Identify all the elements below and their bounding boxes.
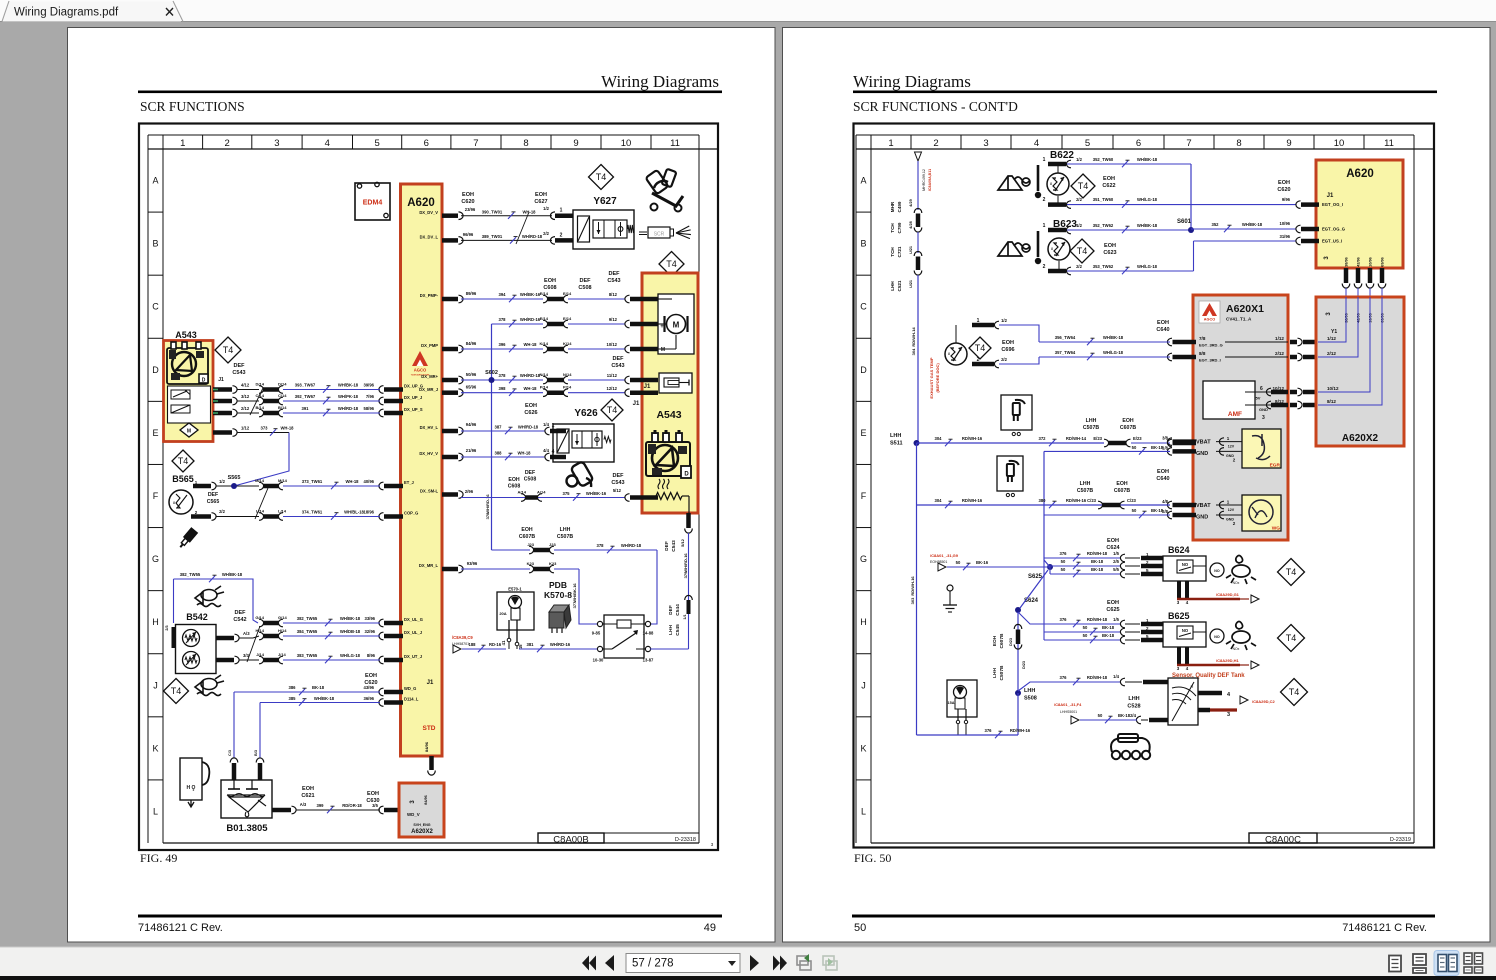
svg-text:G/14: G/14 <box>278 615 287 620</box>
svg-text:33/96: 33/96 <box>365 616 376 621</box>
svg-text:EOH: EOH <box>367 791 379 797</box>
svg-text:9: 9 <box>573 138 578 149</box>
svg-text:1: 1 <box>977 318 980 324</box>
svg-text:C640: C640 <box>1156 327 1169 333</box>
svg-text:2/96: 2/96 <box>465 489 474 494</box>
svg-text:COP_G: COP_G <box>404 511 418 516</box>
svg-text:40/96: 40/96 <box>364 479 375 484</box>
svg-text:EOH: EOH <box>544 278 556 284</box>
svg-text:WH/RD-18: WH/RD-18 <box>522 234 543 239</box>
svg-text:RD/WH-14: RD/WH-14 <box>911 327 916 347</box>
svg-text:7/8: 7/8 <box>1199 336 1206 341</box>
svg-text:WH/LG-18: WH/LG-18 <box>1137 264 1158 269</box>
svg-text:36/96: 36/96 <box>364 696 375 701</box>
svg-text:1/2: 1/2 <box>543 206 549 211</box>
svg-text:C620: C620 <box>364 680 377 686</box>
svg-text:A/3: A/3 <box>300 802 307 807</box>
svg-text:8: 8 <box>523 138 528 149</box>
svg-text:B565: B565 <box>172 474 194 484</box>
svg-text:2: 2 <box>1043 264 1046 270</box>
svg-text:T4: T4 <box>1286 633 1297 643</box>
svg-text:DX_DV_L: DX_DV_L <box>420 235 439 240</box>
svg-text:2: 2 <box>225 138 230 149</box>
svg-text:C544: C544 <box>675 604 681 616</box>
svg-text:50: 50 <box>1061 567 1066 572</box>
svg-text:EOH: EOH <box>365 673 377 679</box>
svg-text:K570-8: K570-8 <box>544 590 572 600</box>
svg-text:WH/RD-16: WH/RD-16 <box>550 642 571 647</box>
svg-text:96/96: 96/96 <box>463 232 474 237</box>
svg-text:383_TW65: 383_TW65 <box>297 653 318 658</box>
svg-text:372: 372 <box>1039 436 1047 441</box>
svg-text:N/14: N/14 <box>540 372 549 377</box>
svg-text:DX_MR+: DX_MR+ <box>421 374 438 379</box>
svg-text:41: 41 <box>501 640 506 646</box>
svg-text:C: C <box>152 302 159 312</box>
svg-text:FIG. 50: FIG. 50 <box>854 851 891 865</box>
svg-text:EOH: EOH <box>525 403 537 409</box>
svg-text:U/21: U/21 <box>909 280 913 288</box>
svg-text:K: K <box>152 743 158 753</box>
svg-text:M: M <box>661 347 665 353</box>
svg-text:DEF: DEF <box>664 541 670 551</box>
svg-text:RD/WH-18: RD/WH-18 <box>1087 675 1108 680</box>
svg-text:D: D <box>152 365 159 375</box>
svg-text:DEF: DEF <box>235 610 247 616</box>
svg-text:13-87: 13-87 <box>643 658 654 663</box>
svg-text:1/2: 1/2 <box>1001 318 1007 323</box>
svg-text:NO: NO <box>1214 635 1220 639</box>
svg-text:F: F <box>861 491 867 501</box>
svg-text:WH/LG-18: WH/LG-18 <box>1103 350 1124 355</box>
svg-text:J1: J1 <box>644 384 651 390</box>
svg-text:BK-18: BK-18 <box>1151 508 1164 513</box>
svg-text:BK-18: BK-18 <box>1091 559 1104 564</box>
svg-text:DEF: DEF <box>613 356 625 362</box>
svg-text:EOH: EOH <box>1157 469 1169 475</box>
svg-text:10/12: 10/12 <box>607 342 618 347</box>
svg-text:15A: 15A <box>948 701 955 705</box>
svg-text:T4: T4 <box>1286 567 1297 577</box>
svg-text:Y1: Y1 <box>1331 329 1337 335</box>
svg-text:J/14: J/14 <box>278 652 287 657</box>
svg-text:352_TW62: 352_TW62 <box>1093 223 1114 228</box>
svg-text:TCH: TCH <box>890 223 895 233</box>
svg-text:T4: T4 <box>666 259 677 269</box>
svg-text:ET_J: ET_J <box>404 480 414 485</box>
svg-text:T4: T4 <box>596 172 607 182</box>
svg-text:T4: T4 <box>1078 181 1089 191</box>
svg-text:LHH: LHH <box>668 625 674 635</box>
svg-text:C721: C721 <box>897 246 902 257</box>
svg-text:T4: T4 <box>607 405 618 415</box>
svg-text:C499: C499 <box>897 201 902 212</box>
svg-text:WH/BK-18: WH/BK-18 <box>1242 222 1263 227</box>
svg-text:DX_PMP-: DX_PMP- <box>420 293 439 298</box>
svg-text:57 / 278: 57 / 278 <box>632 958 674 970</box>
svg-text:BK-18: BK-18 <box>1118 713 1131 718</box>
svg-text:391: 391 <box>302 406 310 411</box>
svg-text:M/14: M/14 <box>255 478 265 483</box>
svg-text:1: 1 <box>888 138 893 149</box>
svg-text:WH-18: WH-18 <box>345 479 359 484</box>
svg-text:376: 376 <box>1060 617 1068 622</box>
svg-text:9-85: 9-85 <box>592 631 601 636</box>
svg-text:7: 7 <box>473 138 478 149</box>
svg-text:DEF: DEF <box>208 492 218 498</box>
svg-text:10: 10 <box>621 138 632 149</box>
svg-text:WH/RD-16: WH/RD-16 <box>520 317 541 322</box>
svg-text:C8A00B: C8A00B <box>553 835 588 846</box>
svg-text:DX_UP_J: DX_UP_J <box>404 395 422 400</box>
svg-text:DX_HV_L: DX_HV_L <box>420 425 439 430</box>
svg-text:G/14: G/14 <box>255 615 264 620</box>
svg-text:11: 11 <box>1384 138 1394 149</box>
svg-text:C/14: C/14 <box>278 393 287 398</box>
svg-text:2/12: 2/12 <box>241 406 250 411</box>
svg-text:50: 50 <box>1132 508 1137 513</box>
svg-text:J1: J1 <box>218 377 224 383</box>
svg-text:EGR: EGR <box>1270 463 1281 469</box>
svg-text:A/14: A/14 <box>518 490 527 495</box>
svg-text:394: 394 <box>499 292 507 297</box>
svg-text:4: 4 <box>325 138 330 149</box>
svg-text:7/96: 7/96 <box>366 394 375 399</box>
svg-text:3: 3 <box>1262 415 1265 421</box>
svg-text:2/2: 2/2 <box>1001 357 1007 362</box>
svg-text:WH/RD-18: WH/RD-18 <box>520 373 541 378</box>
svg-text:LHH: LHH <box>890 433 901 439</box>
svg-text:P/14: P/14 <box>540 385 549 390</box>
svg-text:L: L <box>153 806 158 816</box>
svg-text:352_TW60: 352_TW60 <box>1093 157 1114 162</box>
svg-text:EGT_US_I: EGT_US_I <box>1322 239 1342 244</box>
svg-text:C543: C543 <box>671 540 677 552</box>
svg-text:2/2: 2/2 <box>1076 264 1082 269</box>
svg-text:50: 50 <box>1098 713 1103 718</box>
svg-text:C620: C620 <box>1277 187 1290 193</box>
svg-text:WH/LG-18: WH/LG-18 <box>1137 197 1158 202</box>
svg-text:396: 396 <box>499 342 507 347</box>
svg-text:2/2: 2/2 <box>1076 197 1082 202</box>
svg-text:C623: C623 <box>1103 250 1116 256</box>
svg-text:EXHAUST GAS TEMP: EXHAUST GAS TEMP <box>929 357 934 398</box>
svg-text:WH-18: WH-18 <box>522 210 536 215</box>
svg-text:WH-18: WH-18 <box>517 451 531 456</box>
svg-text:RD/WH-16: RD/WH-16 <box>1066 498 1087 503</box>
svg-text:3/12: 3/12 <box>241 394 250 399</box>
svg-text:J/14: J/14 <box>256 652 265 657</box>
svg-text:Wiring Diagrams: Wiring Diagrams <box>853 72 971 91</box>
svg-text:50: 50 <box>1083 625 1088 630</box>
svg-text:WH/BK-16: WH/BK-16 <box>520 292 541 297</box>
svg-text:1/2: 1/2 <box>219 479 225 484</box>
svg-text:WH/BK-18: WH/BK-18 <box>1137 157 1158 162</box>
svg-text:357_TW64: 357_TW64 <box>1055 350 1076 355</box>
svg-text:10/96: 10/96 <box>1280 221 1291 226</box>
svg-text:EOH: EOH <box>1107 600 1119 606</box>
svg-text:C543: C543 <box>232 370 245 376</box>
svg-text:C543: C543 <box>611 363 624 369</box>
svg-text:J23: J23 <box>527 542 534 547</box>
svg-text:WH/BK-18: WH/BK-18 <box>340 616 361 621</box>
svg-text:LHH: LHH <box>1024 688 1035 694</box>
svg-text:VBAT: VBAT <box>1196 503 1211 509</box>
svg-text:9/12: 9/12 <box>609 317 618 322</box>
svg-text:EGT_OG_G: EGT_OG_G <box>1322 227 1345 232</box>
svg-text:C696: C696 <box>1001 347 1014 353</box>
svg-text:2: 2 <box>1043 197 1046 203</box>
svg-text:EOH: EOH <box>992 635 998 646</box>
svg-text:BK-18: BK-18 <box>312 685 325 690</box>
svg-text:LHH: LHH <box>1080 481 1091 487</box>
svg-text:WH-18: WH-18 <box>523 386 537 391</box>
svg-text:4/28: 4/28 <box>909 221 913 228</box>
svg-text:C624: C624 <box>1106 545 1120 551</box>
svg-text:304: 304 <box>911 348 916 355</box>
svg-text:J: J <box>861 680 866 690</box>
svg-text:P/14: P/14 <box>563 385 572 390</box>
svg-text:380: 380 <box>1039 498 1047 503</box>
svg-text:B/14: B/14 <box>278 405 287 410</box>
svg-text:DX_UT_J: DX_UT_J <box>404 654 422 659</box>
svg-text:378: 378 <box>499 317 507 322</box>
svg-text:EOH: EOH <box>1103 176 1115 182</box>
svg-text:49: 49 <box>704 922 716 934</box>
svg-text:2/3: 2/3 <box>165 625 169 630</box>
svg-text:378: 378 <box>597 543 605 548</box>
svg-text:50: 50 <box>854 922 866 934</box>
svg-text:MHR: MHR <box>890 201 895 212</box>
svg-text:C/23: C/23 <box>1127 498 1137 503</box>
svg-text:1/12: 1/12 <box>241 426 250 431</box>
svg-text:351_TW60: 351_TW60 <box>1093 197 1114 202</box>
svg-text:+: + <box>660 324 664 330</box>
svg-text:STD: STD <box>423 725 436 732</box>
svg-text:H/14: H/14 <box>256 628 265 633</box>
svg-text:RD/WH-14: RD/WH-14 <box>1066 436 1087 441</box>
svg-text:SVH_ENG: SVH_ENG <box>413 823 430 827</box>
svg-text:MHRC499,12: MHRC499,12 <box>922 169 926 191</box>
svg-text:RD-16: RD-16 <box>489 642 502 647</box>
svg-text:376: 376 <box>1060 675 1068 680</box>
svg-text:2/2: 2/2 <box>543 231 549 236</box>
svg-text:10: 10 <box>1334 138 1345 149</box>
svg-text:LHH: LHH <box>890 281 895 291</box>
svg-text:T4: T4 <box>1077 246 1088 256</box>
svg-text:3: 3 <box>274 138 279 149</box>
svg-text:D/23: D/23 <box>1022 661 1026 669</box>
svg-text:3/5: 3/5 <box>372 803 378 808</box>
svg-text:EOH: EOH <box>1002 340 1014 346</box>
svg-text:84/96: 84/96 <box>466 341 477 346</box>
svg-text:10/96: 10/96 <box>1369 257 1373 267</box>
svg-text:2/12: 2/12 <box>1327 351 1336 356</box>
svg-text:S565: S565 <box>228 475 241 481</box>
svg-text:C/23: C/23 <box>1087 498 1097 503</box>
svg-text:D: D <box>202 378 206 384</box>
svg-text:G: G <box>152 554 159 564</box>
svg-text:E: E <box>152 428 158 438</box>
svg-text:K/14: K/14 <box>563 341 572 346</box>
svg-text:E/23: E/23 <box>1093 436 1102 441</box>
svg-text:71486121 C Rev.: 71486121 C Rev. <box>1342 922 1427 934</box>
svg-text:B: B <box>860 239 866 249</box>
svg-text:4: 4 <box>1034 138 1039 149</box>
svg-text:EDM4: EDM4 <box>363 200 383 207</box>
svg-text:E/14: E/14 <box>540 291 549 296</box>
svg-text:LHHS5001: LHHS5001 <box>1060 710 1077 714</box>
svg-text:390_TW01: 390_TW01 <box>482 210 503 215</box>
svg-text:DX_SM-L: DX_SM-L <box>420 489 438 494</box>
svg-text:GND: GND <box>1259 407 1268 412</box>
svg-text:E/14: E/14 <box>540 316 549 321</box>
svg-text:S508: S508 <box>1024 696 1037 702</box>
svg-text:2/5: 2/5 <box>1113 559 1119 564</box>
svg-text:2: 2 <box>933 138 938 149</box>
svg-text:J1: J1 <box>1327 193 1334 199</box>
svg-text:L/14: L/14 <box>278 509 287 514</box>
svg-text:EOH: EOH <box>508 477 519 483</box>
svg-text:376: 376 <box>1060 551 1068 556</box>
svg-text:NOx: NOx <box>1233 647 1240 651</box>
svg-text:21/96: 21/96 <box>466 448 477 453</box>
svg-text:C543: C543 <box>611 480 624 486</box>
svg-text:A/14: A/14 <box>537 490 546 495</box>
svg-text:E/14: E/14 <box>563 291 572 296</box>
svg-text:5/12: 5/12 <box>680 538 685 547</box>
svg-text:M/14: M/14 <box>278 478 288 483</box>
svg-text:S625: S625 <box>1028 574 1043 580</box>
svg-text:WH-18: WH-18 <box>280 426 294 431</box>
svg-text:A620X2: A620X2 <box>411 829 433 835</box>
svg-text:A620X1: A620X1 <box>1226 303 1264 315</box>
svg-text:7: 7 <box>1186 138 1191 149</box>
svg-text:/C8A29D,G1: /C8A29D,G1 <box>1216 592 1240 597</box>
svg-text:C607B: C607B <box>1120 425 1136 431</box>
svg-text:AGCO: AGCO <box>414 368 427 373</box>
svg-text:DEF: DEF <box>525 470 535 476</box>
svg-text:386: 386 <box>289 685 297 690</box>
svg-text:M: M <box>673 321 680 330</box>
svg-text:89/96: 89/96 <box>466 291 477 296</box>
svg-text:C508: C508 <box>524 477 537 483</box>
svg-text:A: A <box>860 176 866 186</box>
svg-text:1: 1 <box>1043 223 1046 229</box>
svg-text:EOH: EOH <box>302 786 314 792</box>
svg-text:D: D <box>860 365 867 375</box>
svg-text:399: 399 <box>317 803 325 808</box>
svg-text:DX_DV_V: DX_DV_V <box>419 210 438 215</box>
svg-text:1/12: 1/12 <box>1327 336 1336 341</box>
svg-text:EOH58501: EOH58501 <box>930 560 947 564</box>
svg-text:NO: NO <box>1182 562 1189 567</box>
svg-text:EOH: EOH <box>535 192 547 198</box>
svg-text:DEF: DEF <box>609 271 621 277</box>
svg-text:RD/WH-16: RD/WH-16 <box>962 498 983 503</box>
svg-text:N/14: N/14 <box>563 372 572 377</box>
svg-text:C: C <box>860 302 867 312</box>
svg-text:K23: K23 <box>549 561 557 566</box>
svg-text:31/96: 31/96 <box>1280 234 1291 239</box>
svg-text:50/96: 50/96 <box>466 372 477 377</box>
svg-text:C528: C528 <box>1127 704 1140 710</box>
svg-text:12/12: 12/12 <box>607 386 618 391</box>
svg-text:J1: J1 <box>427 680 434 686</box>
svg-text:WH/RD-18: WH/RD-18 <box>518 425 539 430</box>
svg-text:EOH: EOH <box>1107 538 1119 544</box>
svg-text:5: 5 <box>1085 138 1090 149</box>
svg-text:C8A00C: C8A00C <box>1265 835 1301 846</box>
svg-text:SCR FUNCTIONS: SCR FUNCTIONS <box>140 99 245 114</box>
svg-text:G: G <box>860 554 867 564</box>
svg-text:T4: T4 <box>1289 687 1300 697</box>
svg-text:H: H <box>152 617 159 627</box>
svg-text:E/14: E/14 <box>563 316 572 321</box>
svg-text:M: M <box>187 429 191 435</box>
svg-text:WH/BL-18: WH/BL-18 <box>344 510 364 515</box>
svg-text:SCR FUNCTIONS - CONT'D: SCR FUNCTIONS - CONT'D <box>853 99 1018 114</box>
svg-text:E570-1: E570-1 <box>508 587 522 592</box>
svg-text:C543: C543 <box>607 278 620 284</box>
svg-text:TCH: TCH <box>890 247 895 257</box>
svg-text:381: 381 <box>527 642 535 647</box>
svg-text:WH/RD-18: WH/RD-18 <box>621 543 642 548</box>
svg-text:C/3: C/3 <box>228 750 232 756</box>
svg-text:U/21: U/21 <box>909 246 913 254</box>
svg-text:WG: WG <box>1272 526 1281 532</box>
svg-text:1: 1 <box>1043 157 1046 163</box>
svg-text:C640: C640 <box>1156 476 1169 482</box>
svg-text:PDB: PDB <box>549 580 567 590</box>
svg-text:/C8A29D,C2: /C8A29D,C2 <box>1252 699 1275 704</box>
svg-text:C507B: C507B <box>1083 425 1099 431</box>
svg-text:C508: C508 <box>578 285 591 291</box>
svg-text:8/8: 8/8 <box>1199 351 1206 356</box>
svg-text:C799: C799 <box>897 222 902 233</box>
svg-text:EOH: EOH <box>462 192 474 198</box>
svg-text:H/14: H/14 <box>278 628 287 633</box>
svg-text:42/96: 42/96 <box>1357 257 1361 267</box>
svg-text:Wiring Diagrams: Wiring Diagrams <box>601 72 719 91</box>
svg-text:32/96: 32/96 <box>365 629 376 634</box>
svg-text:6: 6 <box>1136 138 1141 149</box>
svg-text:1/2: 1/2 <box>1076 157 1082 162</box>
svg-text:WH/RD-16: WH/RD-16 <box>683 553 688 573</box>
svg-text:C626: C626 <box>524 410 537 416</box>
svg-text:8/12: 8/12 <box>1327 399 1336 404</box>
svg-text:1/5: 1/5 <box>1113 617 1119 622</box>
svg-text:71486121 C Rev.: 71486121 C Rev. <box>138 922 223 934</box>
svg-text:5V: 5V <box>1256 396 1261 401</box>
svg-text:39/96: 39/96 <box>364 383 375 388</box>
svg-text:VBAT: VBAT <box>1196 440 1211 446</box>
svg-text:AMF: AMF <box>1228 411 1242 418</box>
svg-text:LHH: LHH <box>1086 418 1097 424</box>
svg-text:11: 11 <box>670 138 680 149</box>
svg-text:373_TW61: 373_TW61 <box>302 479 323 484</box>
svg-text:WH-18: WH-18 <box>523 342 537 347</box>
svg-text:A/3: A/3 <box>243 631 250 636</box>
svg-text:S602: S602 <box>485 370 498 376</box>
svg-text:23/96: 23/96 <box>465 207 476 212</box>
svg-text:D114_L: D114_L <box>404 697 419 702</box>
svg-text:8/96: 8/96 <box>367 653 376 658</box>
svg-text:DX_UP_G: DX_UP_G <box>404 384 423 389</box>
svg-text:K/14: K/14 <box>540 341 549 346</box>
svg-text:50: 50 <box>1132 445 1137 450</box>
svg-text:C622: C622 <box>1102 183 1115 189</box>
